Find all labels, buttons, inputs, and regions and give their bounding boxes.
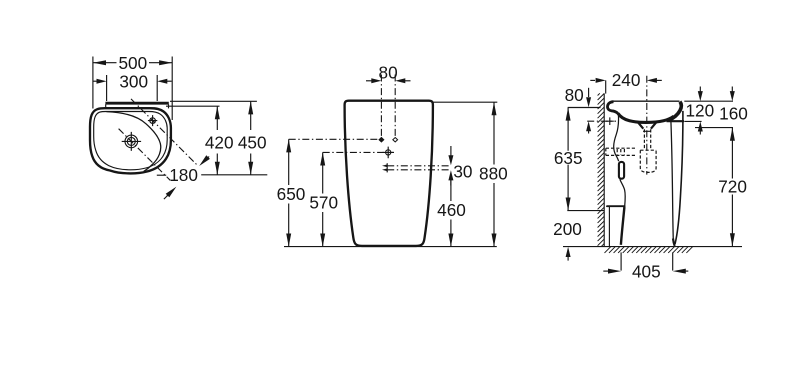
basin bowl interior curve — [106, 112, 160, 172]
dim 405 arrow right — [673, 269, 686, 274]
dim 460 arrow bottom — [448, 234, 453, 247]
floor line — [284, 246, 497, 248]
dim 300 extension line left — [106, 75, 108, 101]
dim 200 arrow up below floor — [567, 255, 569, 261]
rim underside edge — [667, 120, 685, 122]
svg-text:30: 30 — [453, 161, 472, 181]
rim top extension right — [684, 100, 733, 102]
wall drain cross — [606, 117, 614, 125]
dim 240 extension vertical at wall — [605, 80, 607, 93]
basin outer rim (squircle) — [90, 108, 171, 173]
tap position marker filled diamond — [378, 137, 384, 143]
ledge end cap right — [168, 104, 170, 108]
dim 180 arrow A tail — [204, 157, 210, 163]
fixing bracket slot — [619, 162, 624, 179]
dim 720 arrow bottom — [730, 233, 735, 246]
dim 880 arrow bottom — [492, 234, 497, 247]
svg-text:570: 570 — [309, 193, 338, 213]
svg-text:880: 880 — [479, 163, 508, 183]
back foot curve — [621, 207, 625, 245]
drain crosshair — [122, 132, 141, 151]
dim 405 extension right — [672, 252, 674, 270]
dim 160 arrow down — [731, 87, 733, 96]
dim 500 extension line right — [171, 57, 173, 121]
dim 450 arrow bottom — [248, 162, 253, 175]
svg-text:200: 200 — [553, 219, 582, 239]
dim 80 arrow right — [395, 78, 405, 83]
dim 650 line — [288, 139, 290, 246]
svg-text:80: 80 — [379, 62, 398, 82]
drain funnel right — [651, 122, 657, 129]
floor line — [563, 246, 742, 248]
drain offset line upper (dash-dot) — [387, 165, 451, 167]
dim 180 arrow B tail — [167, 191, 173, 197]
dim 30 arrow up — [450, 180, 452, 186]
dim 460 line — [450, 180, 452, 247]
waste pipe hidden bottom — [606, 154, 637, 156]
offset line arrow upper left — [382, 164, 388, 167]
tailpipe hidden right — [650, 129, 652, 150]
waste pipe hidden top — [606, 147, 637, 149]
dim 80 arrow up — [588, 130, 590, 134]
dim 635 arrow top — [566, 108, 571, 121]
dim 570 arrow top — [320, 152, 325, 165]
dim 570 line — [322, 152, 324, 246]
svg-text:460: 460 — [437, 200, 466, 220]
dim 500 extension line left — [92, 57, 94, 109]
dim 635 arrow bottom — [566, 198, 571, 211]
bowl section curve — [618, 113, 674, 122]
tap centerline 2 (dash-dot vertical) — [394, 75, 396, 137]
centerline B end dash — [164, 196, 167, 199]
dim 120 arrow up — [699, 130, 701, 135]
waste pipe wall cap — [605, 148, 607, 155]
svg-text:420: 420 — [205, 132, 234, 152]
dim 300 arrow left — [97, 79, 107, 84]
svg-text:635: 635 — [554, 148, 583, 168]
dim 240 leader right — [655, 79, 662, 81]
dim 300 leader right — [165, 80, 172, 82]
bottle trap hidden body — [640, 150, 656, 172]
dim 500 line — [93, 62, 172, 64]
svg-text:300: 300 — [119, 72, 148, 92]
pipe coupling ticks — [617, 149, 624, 155]
tap centerline (dash-dot vertical) — [646, 76, 648, 175]
trap inlet hidden — [640, 149, 656, 151]
svg-text:650: 650 — [277, 184, 306, 204]
basin inner rim line — [94, 112, 168, 170]
extension line basin top edge to right — [166, 105, 220, 107]
drain height centerline 650 (dash-dot) — [289, 138, 378, 140]
dim 420 line — [216, 106, 218, 175]
dim 80 leader right — [404, 80, 411, 82]
dim 880 extension top — [433, 101, 497, 103]
bowl inner depth extension — [695, 127, 733, 129]
ledge end cap left — [105, 104, 107, 108]
basin rim top line (silhouette) — [613, 100, 680, 102]
centerline A through tap hole (45 deg) — [131, 99, 198, 166]
dim 180 left stub — [157, 174, 166, 176]
svg-text:160: 160 — [719, 104, 748, 124]
dim 300 leader left — [93, 80, 99, 82]
drain offset line lower (dash-dot) — [387, 169, 451, 171]
drain funnel left — [638, 122, 644, 129]
centerline B through drain (45 deg) — [119, 129, 171, 181]
dim 180 arrow on line B — [166, 187, 177, 198]
dim 240 leader left — [590, 79, 595, 81]
svg-text:80: 80 — [565, 85, 584, 105]
dim 880 line — [493, 102, 495, 246]
dim 80 arrow down — [588, 88, 590, 97]
rim underside extension — [684, 120, 701, 122]
back foot wall side — [608, 207, 610, 247]
offset line arrow lower left — [382, 168, 388, 171]
recess bottom ledge — [607, 205, 625, 207]
recess extension line — [567, 210, 604, 212]
dim 635 line — [567, 108, 569, 211]
rim top extension line left — [568, 107, 601, 109]
dim 80 arrow left — [371, 78, 381, 83]
wall face line — [603, 93, 605, 246]
dim 570 arrow bottom — [320, 234, 325, 247]
dim 80 leader left — [366, 80, 373, 82]
basin back lip profile — [607, 102, 618, 114]
tap hole circle — [150, 118, 156, 124]
front shell outer line — [675, 111, 683, 244]
dim 500 arrow left — [93, 60, 106, 65]
front foot tip — [673, 239, 675, 246]
wall hatching — [598, 93, 605, 246]
svg-text:405: 405 — [632, 262, 661, 282]
drain inner circle — [127, 137, 135, 145]
dim 300 arrow right — [157, 79, 167, 84]
dim 30 arrow down — [450, 146, 452, 158]
drain wall centerline (dash-dot) — [587, 120, 616, 122]
dim 720 arrow top — [730, 128, 735, 141]
basin back ledge bar — [105, 102, 168, 105]
svg-text:240: 240 — [612, 70, 641, 90]
tap position marker open diamond — [393, 138, 398, 142]
floor hatching — [605, 247, 693, 253]
dim 300 extension line right — [156, 75, 158, 101]
dim 650 arrow top — [286, 139, 291, 152]
overflow hole crosshair — [382, 147, 394, 159]
pedestal outline front — [345, 101, 433, 246]
extension line basin bottom to right — [201, 174, 267, 176]
svg-text:500: 500 — [118, 53, 147, 73]
overflow hole circle — [386, 150, 391, 155]
tap hole crosshair — [148, 115, 157, 126]
tailpipe hidden left — [643, 129, 645, 150]
dim 180 arrow on line A — [199, 155, 210, 166]
dim 405 leader right — [684, 270, 688, 272]
dim 405 leader left — [603, 270, 609, 272]
drain cross tick — [643, 130, 651, 132]
dim 500 arrow right — [159, 60, 172, 65]
dim 120 arrow down — [699, 87, 701, 96]
dim 450 arrow top — [248, 101, 253, 114]
offset lines left cap bar — [386, 163, 388, 172]
tap centerline 1 (dash-dot vertical) — [380, 75, 382, 137]
dim 240 arrow right — [647, 78, 657, 83]
dim 405 arrow left — [608, 269, 621, 274]
overflow centerline 570 (dash-dot) — [323, 151, 394, 153]
front shell inner line — [671, 121, 674, 243]
dim 880 arrow top — [492, 102, 497, 115]
svg-text:720: 720 — [718, 176, 747, 196]
drain outer circle — [125, 135, 138, 148]
dim 720 line — [731, 128, 733, 247]
pedestal back profile lower — [620, 179, 625, 206]
svg-text:450: 450 — [238, 132, 267, 152]
dim 405 extension left — [620, 252, 622, 270]
pedestal back profile upper — [614, 113, 619, 161]
dim 240 arrow left — [596, 78, 606, 83]
dim 420 arrow bottom — [215, 162, 220, 175]
dim 420 arrow top — [215, 106, 220, 119]
svg-text:120: 120 — [685, 100, 714, 120]
dim 650 arrow bottom — [286, 234, 291, 247]
bowl front rim corner — [668, 102, 681, 121]
dim 450 line — [250, 101, 252, 175]
svg-text:180: 180 — [169, 165, 198, 185]
extension line ledge top to right — [170, 100, 257, 102]
